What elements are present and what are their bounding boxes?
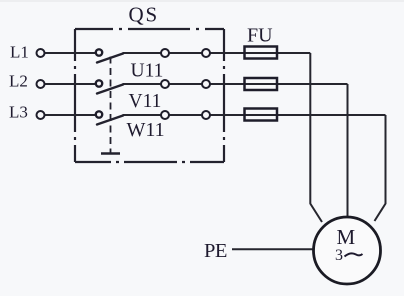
svg-text:L1: L1 bbox=[10, 43, 29, 62]
svg-text:V11: V11 bbox=[129, 91, 162, 112]
svg-text:M: M bbox=[337, 225, 356, 249]
svg-text:FU: FU bbox=[247, 25, 273, 47]
svg-text:PE: PE bbox=[204, 240, 227, 262]
svg-text:U11: U11 bbox=[131, 61, 164, 82]
svg-text:L3: L3 bbox=[9, 103, 28, 122]
svg-text:L2: L2 bbox=[9, 72, 28, 91]
svg-text:3: 3 bbox=[335, 247, 343, 264]
svg-text:QS: QS bbox=[129, 3, 159, 27]
svg-text:W11: W11 bbox=[127, 119, 165, 141]
